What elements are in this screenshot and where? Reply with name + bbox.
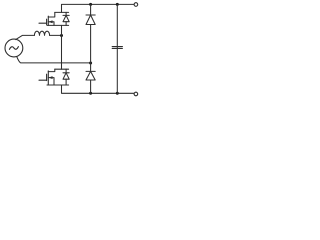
C1 bottom plate — [112, 47, 122, 49]
D2 cathode bar — [63, 72, 69, 74]
Q1 gate lead — [39, 22, 47, 24]
AC source V1 circle — [5, 39, 23, 57]
top bar of Q2 pair — [55, 68, 69, 70]
capacitor C1 — [112, 4, 122, 93]
wire AC top to inductor — [16, 35, 35, 39]
diode D3 top rectifier — [86, 4, 95, 63]
wire top rail — [62, 4, 135, 12]
D1 cathode lead — [65, 12, 67, 15]
D3 triangle — [86, 15, 95, 25]
node top rail dot A — [89, 3, 92, 6]
terminal negative output — [134, 92, 138, 96]
Q2 source lead — [48, 78, 54, 85]
wire inductor to midpoint node — [50, 34, 62, 36]
diode D4 bottom rectifier — [86, 63, 95, 93]
Q2 arrow — [49, 77, 52, 79]
node neutral-diode junction dot — [89, 62, 92, 65]
D2 triangle — [63, 73, 69, 79]
D1 cathode bar — [63, 14, 69, 16]
D3 anode lead to neutral — [90, 25, 92, 63]
Q2 gate lead — [39, 79, 47, 81]
wire bottom rail — [62, 85, 135, 93]
D4 cathode bar — [86, 70, 95, 72]
transistor Q2 bottom MOSFET — [39, 69, 69, 85]
node bottom rail dot D — [116, 92, 119, 95]
C1 lead — [116, 4, 118, 93]
D4 triangle — [86, 71, 95, 80]
D2 anode lead — [65, 79, 67, 85]
Q1 drain lead — [48, 12, 55, 17]
D1 anode lead — [65, 22, 67, 26]
wire Q1 pair to midpoint — [61, 25, 63, 35]
D3 cathode bar — [86, 14, 95, 16]
wire AC bottom to neutral rail — [17, 57, 91, 63]
Q2 channel bar — [47, 71, 49, 85]
diode D2 body diode of Q2 — [63, 69, 69, 85]
Q2 drain lead — [48, 69, 55, 71]
terminal positive output — [134, 3, 138, 7]
D4 cathode lead — [90, 63, 92, 71]
node top rail dot B — [116, 3, 119, 6]
C1 top plate — [112, 46, 122, 48]
diode D1 body diode of Q1 — [63, 12, 69, 25]
bottom bar of Q2 pair — [47, 84, 69, 86]
transistor Q1 top MOSFET — [39, 12, 69, 25]
D2 cathode lead — [65, 69, 67, 73]
Q2 gate bar — [46, 74, 48, 80]
top bar of Q1 pair — [55, 11, 69, 13]
inductor L1 — [34, 31, 49, 35]
D4 anode lead to bottom rail — [90, 80, 92, 93]
Q1 gate bar — [46, 19, 48, 25]
bottom bar of Q1 pair — [47, 24, 69, 26]
node bottom rail dot C — [89, 92, 92, 95]
Q1 arrow — [49, 21, 52, 23]
Q1 channel bar — [47, 16, 49, 25]
Q1 source lead — [48, 22, 54, 26]
node midpoint junction dot — [60, 34, 63, 37]
D3 cathode lead — [90, 4, 92, 15]
wire midpoint to Q2 pair (crosses neutral wire) — [61, 36, 63, 70]
AC source sine symbol — [9, 47, 18, 50]
D1 triangle — [63, 15, 69, 21]
